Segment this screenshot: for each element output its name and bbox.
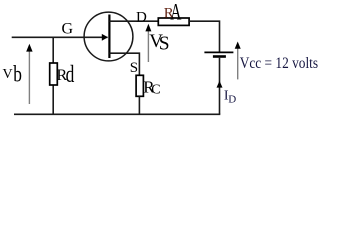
svg-text:d: d [66, 62, 75, 88]
VS arrow [147, 30, 149, 62]
gate arrowhead at bar [102, 34, 108, 41]
current ID arrowhead on right wire [217, 81, 223, 88]
svg-text:C: C [151, 82, 160, 97]
battery B1 negative plate [213, 55, 226, 58]
wire battery to bottom-right corner [219, 58, 221, 115]
source Vb arrow [28, 50, 30, 105]
svg-text:D: D [228, 94, 236, 106]
wire RA to top-right corner and down to battery [189, 21, 219, 52]
transistor Q1 drain lead wire to RA [109, 20, 158, 22]
transistor Q1 channel bar [108, 15, 110, 59]
svg-text:b: b [13, 62, 22, 87]
bottom wire [14, 113, 220, 115]
wire gate (top-left horizontal to transistor bar) [12, 36, 108, 38]
svg-text:G: G [62, 21, 74, 38]
Vcc arrow [237, 47, 239, 79]
svg-text:A: A [170, 0, 181, 24]
transistor Q1 circle [84, 12, 133, 61]
svg-text:S: S [130, 60, 138, 76]
svg-text:S: S [159, 34, 170, 55]
resistor Rc body [136, 75, 143, 96]
svg-text:D: D [136, 10, 147, 26]
resistor Rd body [50, 63, 58, 85]
resistor Rd wires [52, 37, 54, 63]
resistor Rc bottom wire [138, 96, 140, 114]
svg-text:V: V [3, 67, 13, 82]
battery B1 positive plate [204, 51, 233, 53]
svg-text:Vcc = 12 volts: Vcc = 12 volts [240, 55, 318, 72]
resistor RA body [158, 18, 189, 25]
transistor Q1 source lead wire [109, 53, 139, 75]
